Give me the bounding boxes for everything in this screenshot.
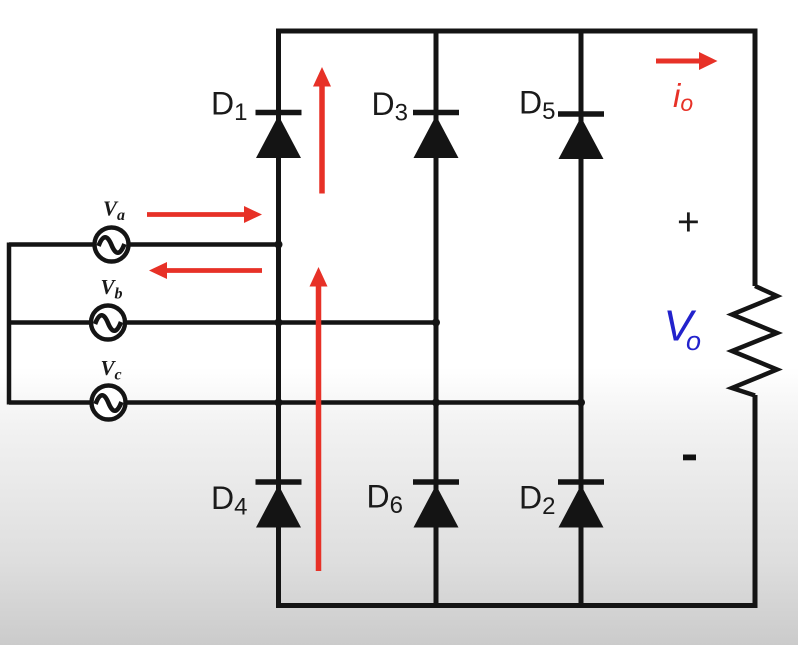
- wire phase c line: [9, 400, 581, 405]
- svg-text:Vb: Vb: [101, 275, 123, 303]
- svg-text:Vc: Vc: [101, 356, 122, 384]
- diode D2: [558, 482, 604, 528]
- wire right rail lower (from resistor): [753, 395, 758, 606]
- svg-text:o: o: [686, 326, 701, 356]
- arrow io output current (top right): [656, 52, 718, 70]
- arrow return current left: [149, 262, 262, 279]
- wire top rail: [279, 31, 756, 33]
- svg-text:D2: D2: [519, 480, 555, 521]
- node crossing phase c / leg1: [275, 399, 283, 407]
- node junction phase b / leg2: [432, 319, 440, 327]
- wire bridge leg 2 (D3/D6 vertical): [434, 31, 439, 606]
- svg-text:io: io: [673, 77, 693, 116]
- resistor R load: [732, 286, 777, 396]
- arrow phase a current right: [147, 206, 262, 223]
- diode D5: [558, 114, 604, 159]
- svg-text:D5: D5: [519, 85, 555, 126]
- diode D4: [256, 482, 302, 528]
- source Vb: [91, 306, 125, 340]
- svg-text:+: +: [677, 201, 700, 244]
- node crossing phase c / leg2: [432, 399, 440, 407]
- svg-text:Va: Va: [103, 197, 125, 225]
- svg-text:D6: D6: [367, 479, 403, 520]
- wire bridge leg 1 (D1/D4 vertical): [276, 31, 281, 606]
- wire bottom rail: [276, 603, 758, 608]
- arrow current up long (through leg): [310, 267, 328, 571]
- diode D6: [413, 482, 459, 528]
- diode D3: [413, 113, 459, 159]
- wire phase a line: [9, 242, 279, 247]
- wire neutral left vertical: [7, 243, 12, 405]
- svg-text:D3: D3: [372, 86, 408, 127]
- node crossing phase b / leg1: [275, 319, 283, 327]
- node junction phase a / leg1: [275, 241, 283, 249]
- wire phase b line: [9, 320, 436, 325]
- svg-text:D4: D4: [211, 480, 247, 521]
- label minus: [683, 455, 696, 461]
- diode D1: [256, 113, 302, 159]
- arrow current up through D1: [313, 67, 331, 194]
- source Vc: [92, 386, 126, 420]
- svg-text:D1: D1: [211, 86, 247, 127]
- source Va: [95, 228, 129, 262]
- wire bridge leg 3 (D5/D2 vertical): [579, 31, 584, 606]
- node junction phase c / leg3: [577, 399, 585, 407]
- wire right rail upper (to resistor): [753, 29, 758, 287]
